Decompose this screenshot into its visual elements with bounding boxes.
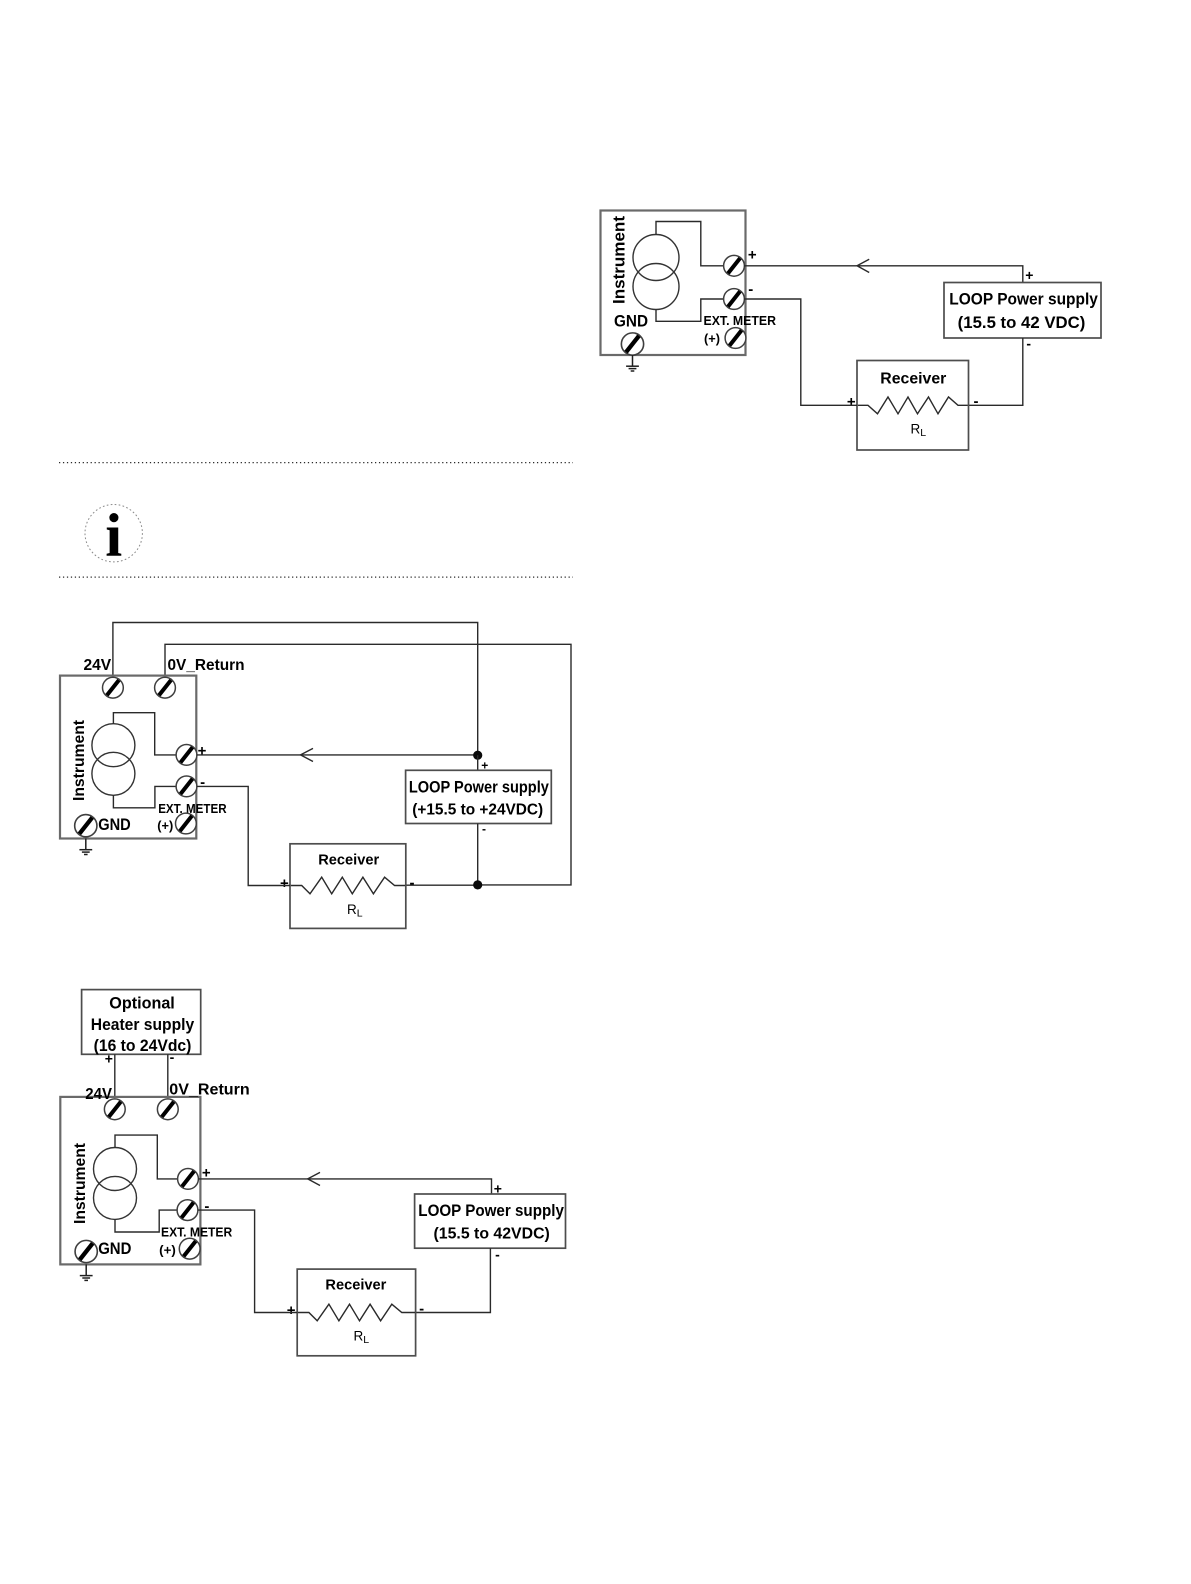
junction dot at loop - (diagram 2) xyxy=(473,880,482,889)
wire: loop supply - to receiver - (diagram 1) xyxy=(969,338,1023,405)
ground symbol (diagram 2) xyxy=(79,839,92,855)
wire: + terminal to loop supply + (diagram 1) xyxy=(744,266,1023,283)
svg-text:+: + xyxy=(847,393,856,410)
screw terminal - (diagram 3) xyxy=(177,1200,198,1221)
wire: instrument - to receiver + (diagram 3) xyxy=(198,1210,298,1312)
svg-text:Instrument: Instrument xyxy=(610,216,629,304)
svg-text:i: i xyxy=(105,503,122,570)
LOOP power supply box PS2 xyxy=(406,770,552,823)
current source CS1 xyxy=(633,235,679,310)
current source CS2 xyxy=(92,724,135,796)
svg-text:-: - xyxy=(204,1198,209,1215)
load resistor RL (diagram 3) xyxy=(298,1304,415,1321)
screw terminal - (diagram 1) xyxy=(724,289,745,310)
svg-text:GND: GND xyxy=(98,1239,131,1258)
arrowhead current direction (diagram 3) xyxy=(308,1172,320,1185)
receiver box RX2 xyxy=(290,844,406,929)
screw terminal GND (diagram 2) xyxy=(75,815,97,837)
current source CS3 xyxy=(94,1148,137,1220)
wire: 24V terminal up and over to loop + junction (diagram 2) xyxy=(113,623,478,756)
load resistor RL (diagram 2) xyxy=(291,877,405,894)
wire: instrument + to junction (diagram 2) xyxy=(197,754,475,756)
wire: heater - to 0V_Return terminal (diagram 3) xyxy=(167,1054,169,1099)
svg-text:-: - xyxy=(1026,335,1031,351)
svg-text:Receiver: Receiver xyxy=(325,1277,386,1294)
svg-text:-: - xyxy=(495,1247,500,1263)
svg-text:0V_Return: 0V_Return xyxy=(168,657,245,674)
instrument box U1 xyxy=(601,211,746,356)
svg-text:+: + xyxy=(1025,267,1033,283)
svg-text:24V: 24V xyxy=(84,657,112,674)
wire: instrument + to loop supply + (diagram 3) xyxy=(198,1179,492,1194)
wire: loop supply - down to junction (diagram 2) xyxy=(477,824,479,885)
screw terminal 24V (diagram 2) xyxy=(103,677,124,698)
junction dot at loop + (diagram 2) xyxy=(473,751,482,760)
screw terminal GND (diagram 3) xyxy=(75,1240,97,1262)
svg-text:+: + xyxy=(198,742,207,759)
load resistor RL (diagram 1) xyxy=(858,397,968,414)
wire: CS2 bottom to - terminal (diagram 2) xyxy=(113,786,176,807)
svg-text:GND: GND xyxy=(98,815,131,834)
LOOP power supply box PS3 xyxy=(415,1194,566,1248)
wire: CS3 bottom to - terminal (diagram 3) xyxy=(115,1210,178,1232)
ground symbol (diagram 3) xyxy=(80,1264,93,1280)
svg-text:-: - xyxy=(748,281,753,298)
screw terminal EXT. METER (diagram 1) xyxy=(725,328,746,349)
screw terminal 24V (diagram 3) xyxy=(104,1099,125,1120)
svg-text:Optional: Optional xyxy=(109,994,175,1013)
svg-text:+: + xyxy=(105,1051,113,1067)
arrowhead current direction (diagram 1) xyxy=(857,259,869,272)
svg-text:+: + xyxy=(280,875,289,892)
screw terminal - (diagram 2) xyxy=(176,776,197,797)
svg-text:+: + xyxy=(287,1302,296,1319)
wire: loop supply - to receiver - (diagram 3) xyxy=(416,1248,490,1312)
svg-text:-: - xyxy=(170,1049,175,1065)
screw terminal 0V_Return (diagram 3) xyxy=(157,1099,178,1120)
screw terminal + (diagram 2) xyxy=(176,745,197,766)
svg-text:(15.5 to 42VDC): (15.5 to 42VDC) xyxy=(434,1225,550,1242)
svg-text:EXT. METER: EXT. METER xyxy=(161,1225,232,1239)
wire: CS1 bottom to - terminal (diagram 1) xyxy=(656,299,724,321)
wire: CS3 top to + terminal (diagram 3) xyxy=(115,1135,178,1179)
svg-text:(+): (+) xyxy=(704,332,720,346)
dotted separator line lower xyxy=(59,576,573,578)
svg-text:-: - xyxy=(200,774,205,791)
instrument box U3 xyxy=(60,1097,200,1265)
screw terminal 0V_Return (diagram 2) xyxy=(155,677,176,698)
svg-text:(+): (+) xyxy=(159,1243,176,1257)
screw terminal + (diagram 3) xyxy=(178,1169,199,1190)
svg-text:EXT. METER: EXT. METER xyxy=(704,314,777,328)
dotted separator line upper xyxy=(59,462,573,464)
svg-text:(+15.5 to +24VDC): (+15.5 to +24VDC) xyxy=(412,802,543,819)
svg-text:-: - xyxy=(419,1300,424,1317)
screw terminal + (diagram 1) xyxy=(724,255,745,276)
receiver box RX3 xyxy=(297,1269,415,1356)
svg-text:+: + xyxy=(748,247,757,264)
svg-text:LOOP Power supply: LOOP Power supply xyxy=(949,290,1098,308)
wire: junction to loop supply + (diagram 2) xyxy=(477,755,479,770)
svg-text:-: - xyxy=(974,393,979,410)
arrowhead current direction (diagram 2) xyxy=(301,748,314,761)
svg-text:LOOP Power supply: LOOP Power supply xyxy=(418,1202,564,1220)
svg-text:Instrument: Instrument xyxy=(71,720,88,801)
svg-text:Heater supply: Heater supply xyxy=(91,1015,195,1034)
screw terminal EXT. METER (diagram 2) xyxy=(176,813,197,834)
svg-text:Instrument: Instrument xyxy=(72,1143,89,1224)
ground symbol (diagram 1) xyxy=(626,355,639,371)
information note icon xyxy=(85,503,142,570)
screw terminal EXT. METER (diagram 3) xyxy=(179,1238,200,1259)
svg-text:GND: GND xyxy=(614,312,648,331)
wire: instrument - to receiver + (diagram 1) xyxy=(744,299,857,405)
wire: CS2 top to + terminal (diagram 2) xyxy=(113,713,176,755)
svg-text:LOOP Power supply: LOOP Power supply xyxy=(409,778,550,796)
LOOP power supply box PS1 xyxy=(944,283,1101,339)
optional heater supply box PS4 xyxy=(82,990,201,1055)
screw terminal GND (diagram 1) xyxy=(621,333,643,355)
svg-text:EXT. METER: EXT. METER xyxy=(158,802,226,816)
wire: heater + to 24V terminal (diagram 3) xyxy=(114,1054,116,1099)
svg-text:-: - xyxy=(410,875,415,892)
svg-text:-: - xyxy=(482,822,486,836)
svg-text:Receiver: Receiver xyxy=(318,851,379,868)
svg-text:0V_Return: 0V_Return xyxy=(169,1082,249,1099)
receiver box RX1 xyxy=(857,361,969,451)
svg-text:Receiver: Receiver xyxy=(880,371,946,388)
wire: instrument - to receiver + (diagram 2) xyxy=(197,786,291,885)
wire: receiver - to junction (diagram 2) xyxy=(406,884,482,886)
wire: CS1 top to + terminal (diagram 1) xyxy=(656,222,724,266)
svg-text:(15.5 to 42 VDC): (15.5 to 42 VDC) xyxy=(958,314,1086,332)
svg-text:(+): (+) xyxy=(157,819,173,833)
instrument box U2 xyxy=(60,676,196,839)
wire: 0V_Return terminal up over and down to loop - junction (diagram 2) xyxy=(165,644,571,885)
